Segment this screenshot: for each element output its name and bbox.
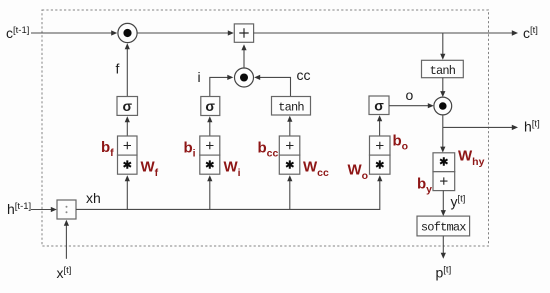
label o [406,87,414,103]
wire i-stack to sigma-i [207,116,212,136]
svg-text:tanh: tanh [278,101,304,115]
svg-text:σ: σ [374,97,384,113]
wire M3 down to hy-stack [440,115,445,153]
concat box [57,200,76,219]
label h[t] [524,119,540,135]
label i [198,69,201,85]
wire M2 to add node [241,44,246,68]
wire f-stack to sigma-f [125,116,130,136]
label W_cc [303,159,329,180]
label b_o [393,133,409,153]
wire hy-stack to softmax [441,191,446,217]
svg-text:i: i [198,69,201,85]
cell boundary (dashed) [42,10,489,246]
wire cc-stack to tanh-cc [287,116,292,136]
node M2 elementwise multiply (input) [235,68,254,87]
label cc [297,67,311,83]
wire xh to i-stack [207,175,212,209]
label W_o [348,162,369,183]
wire c-line branch down to tanh [440,33,445,60]
node M3 elementwise multiply (output) [434,97,452,115]
svg-text:f: f [116,61,120,77]
i-gate add/mul stack [200,136,220,174]
label xh [86,190,101,206]
wire sigma-f to M1 [125,43,130,96]
wire add node to c[t] output [254,30,518,35]
wire xh bus [76,175,382,209]
wire o-stack to sigma-o [377,115,382,136]
label p[t] [436,265,452,281]
wire softmax to p[t] [441,236,446,259]
label c[t-1] [6,25,29,41]
tanh box output [422,60,464,78]
label b_cc [258,140,279,160]
tanh box cc [272,97,311,116]
label f [116,61,120,77]
svg-text:σ: σ [205,98,215,114]
label W_i [224,159,241,180]
wire tanh to M3 [440,78,445,97]
label b_f [101,139,114,159]
cc-gate add/mul stack [279,136,300,174]
svg-text:o: o [406,87,414,103]
wire M1 to add node [137,30,234,35]
wire h[t] branch [443,125,518,130]
wire c[t-1] input [31,30,117,35]
svg-text:xh: xh [86,190,101,206]
label b_y [417,176,432,196]
label c[t] [523,25,538,41]
svg-text:tanh: tanh [430,64,456,78]
wire xh to cc-stack [287,175,292,209]
label h[t-1] [7,201,31,217]
sigma gate i box [201,97,220,116]
label W_hy [458,148,485,169]
sigma gate o box [369,96,389,115]
node M1 elementwise multiply (forget) [118,23,137,42]
svg-text:σ: σ [123,98,133,114]
add node box + [234,24,253,42]
wire sigma-o to M3 [389,103,434,108]
f-gate add/mul stack [118,136,138,174]
softmax box [417,216,470,236]
o-gate add/mul stack [370,136,391,174]
label x[t] [57,265,72,281]
label W_f [141,159,159,180]
hy mul/add stack [433,153,455,191]
wire x[t] input [64,220,69,259]
wire xh to f-stack [125,175,130,209]
label y[t] [451,194,466,210]
wire sigma-i elbow to M2 [210,75,234,97]
sigma gate f box [117,97,138,116]
wire h[t-1] input [31,207,57,212]
wire tanh-cc elbow to M2 [254,75,290,97]
svg-text:softmax: softmax [421,221,466,235]
label b_i [184,140,196,160]
svg-text:cc: cc [297,67,311,83]
